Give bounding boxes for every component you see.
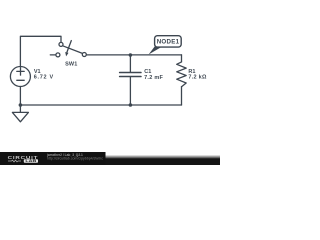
- V1 minus sign: [17, 79, 24, 81]
- ground triangle: [12, 112, 28, 121]
- SW1 terminal upper-left: [59, 42, 63, 46]
- switch SW1: [50, 41, 86, 57]
- SW1 actuation arrow shaft: [67, 41, 71, 52]
- C1 top lead wire: [129, 55, 131, 72]
- ground stub wire: [19, 105, 21, 112]
- node NODE1 callout flag: [149, 36, 182, 55]
- SW1 actuation arrowhead: [65, 52, 68, 56]
- watermark logo zigzag: [8, 160, 21, 162]
- V1 body circle: [10, 67, 30, 87]
- watermark logo LAB: [24, 159, 38, 162]
- svg-text:7.2 mF: 7.2 mF: [144, 75, 163, 81]
- junction dot NODE1 (top of C1): [129, 53, 133, 57]
- svg-text:7.2 kΩ: 7.2 kΩ: [188, 75, 207, 81]
- SW1 lever: [63, 46, 83, 54]
- watermark text line2: [47, 156, 103, 160]
- svg-text:6.72 V: 6.72 V: [34, 74, 54, 80]
- resistor R1: [177, 62, 187, 87]
- C1 top plate: [120, 72, 141, 74]
- NODE1 pointer beak: [149, 46, 164, 55]
- ground: [12, 105, 28, 122]
- svg-text:SW1: SW1: [65, 62, 77, 68]
- capacitor C1: [120, 55, 141, 105]
- wire right rail: [86, 54, 181, 56]
- watermark logo CIRCUIT: [8, 155, 39, 163]
- wire left bottom: [19, 87, 21, 106]
- V1 plus sign: [17, 70, 24, 72]
- svg-text:LAB: LAB: [25, 159, 37, 163]
- wire stub to SW1 open throw: [50, 54, 56, 56]
- C1 bottom lead wire: [129, 77, 131, 105]
- svg-text:http://circuitlab.com/c/pybbp4: http://circuitlab.com/c/pybbp4/2w0rc: [47, 156, 103, 160]
- junction dot at ground: [19, 103, 23, 107]
- wire right vertical bottom: [181, 87, 183, 105]
- wire top-left rail: [20, 36, 61, 66]
- wire bottom rail: [20, 104, 181, 106]
- C1 bottom plate: [120, 76, 141, 78]
- watermark bottom bar: [0, 152, 220, 165]
- svg-text:NODE1: NODE1: [157, 39, 180, 46]
- SW1 terminal right (common): [82, 53, 86, 57]
- voltage source V1: [10, 67, 30, 87]
- SW1 terminal lower-left (open throw): [56, 53, 60, 57]
- junction dot bottom of C1: [129, 103, 133, 107]
- wire right vertical top: [181, 55, 183, 62]
- watermark text line1: [46, 153, 83, 157]
- NODE1 box: [155, 36, 182, 47]
